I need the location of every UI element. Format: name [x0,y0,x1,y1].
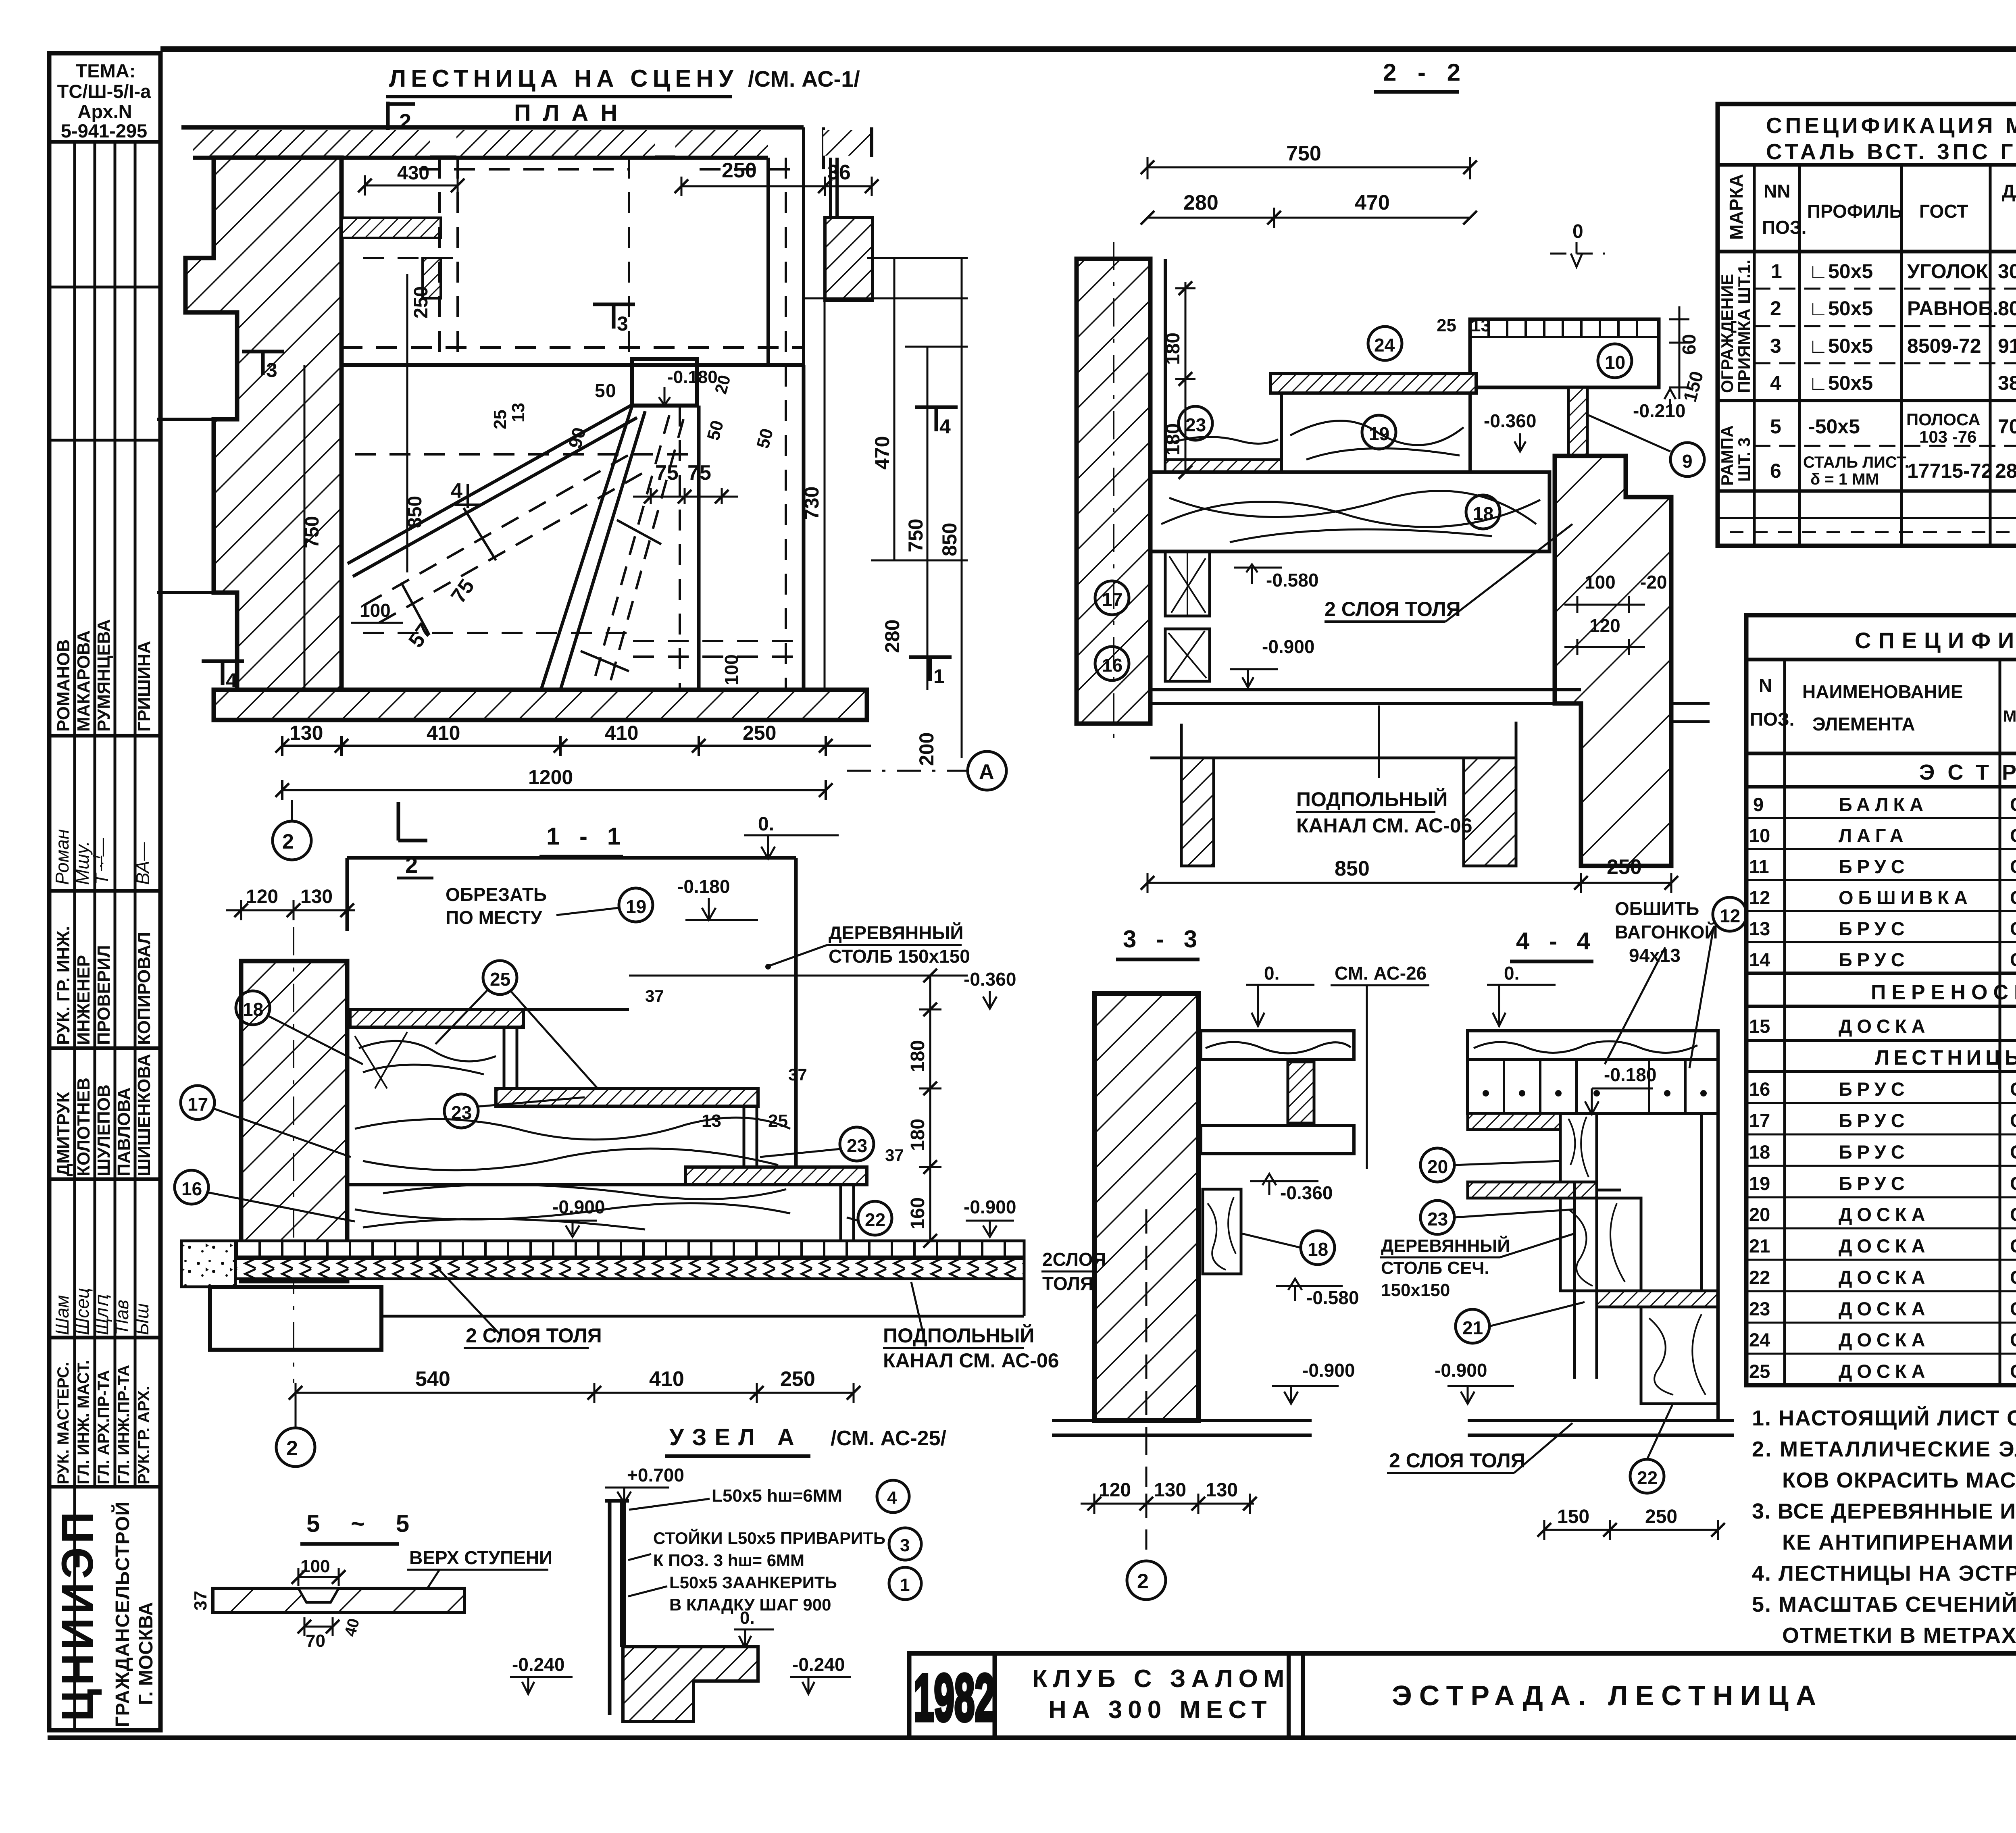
timber table column headers [1750,673,2016,744]
svg-text:ПО МЕСТУ: ПО МЕСТУ [446,907,543,928]
timber table grid [1746,615,2016,1385]
svg-text:-0.240: -0.240 [792,1654,845,1675]
svg-text:120: 120 [1589,615,1620,636]
top floor wood grain [1201,1031,1354,1059]
step hatched L-shape [623,1647,758,1721]
svg-text:5: 5 [700,461,711,485]
svg-text:РУК. МАСТЕРС.: РУК. МАСТЕРС. [54,1362,72,1484]
svg-text:7: 7 [687,461,699,485]
svg-text:МАРКА: МАРКА [1726,174,1747,240]
svg-text:2: 2 [1137,1570,1149,1593]
svg-text:4: 4 [887,1488,897,1508]
circle 18 [1301,1231,1335,1265]
svg-text:21: 21 [1462,1317,1483,1338]
svg-text:100: 100 [300,1556,330,1576]
svg-text:180: 180 [1162,423,1184,456]
circle 23 mid [444,1094,478,1128]
dashed room outline verticals [342,158,804,690]
svg-text:18: 18 [1308,1239,1328,1260]
svg-text:3. ВСЕ ДЕРЕВЯННЫЕ ИЗДЕЛИЯ П: 3. ВСЕ ДЕРЕВЯННЫЕ ИЗДЕЛИЯ ПОДВЕРГНУТЬ ГЛ… [1752,1499,2016,1523]
svg-text:180: 180 [907,1119,929,1151]
svg-text:13: 13 [508,403,528,422]
svg-text:ПРИЯМКА ШТ.1.: ПРИЯМКА ШТ.1. [1735,260,1754,393]
svg-text:410: 410 [605,722,638,744]
landing edge line [342,363,804,367]
names group2 [54,1054,154,1176]
svg-text:-0.360: -0.360 [1484,410,1536,431]
vertical plank band with nails [1468,1059,1718,1113]
svg-text:ДЛИНА: ДЛИНА [2002,181,2016,202]
svg-text:3: 3 [266,359,277,381]
svg-text:25: 25 [490,410,510,429]
svg-text:N: N [1759,675,1772,696]
landing box [632,359,697,406]
svg-text:2 СЛОЯ ТОЛЯ: 2 СЛОЯ ТОЛЯ [1389,1449,1525,1472]
block 19 wood [1281,393,1470,472]
svg-text:103 -76: 103 -76 [1919,427,1976,446]
svg-text:КОВ ОКРАСИТЬ МАСЛЯНОЙ КРАСКО: КОВ ОКРАСИТЬ МАСЛЯНОЙ КРАСКОЙ СЕРОГО ЦВЕ… [1782,1468,2016,1492]
svg-text:-0.240: -0.240 [512,1654,564,1675]
svg-text:250: 250 [743,722,776,744]
svg-text:ДЕРЕВЯННЫЙ: ДЕРЕВЯННЫЙ [829,922,964,943]
bottom tread [1597,1291,1718,1307]
svg-text:3: 3 [900,1535,910,1555]
metal table column headers [1726,171,2016,250]
svg-text:ШУЛЕПОВ: ШУЛЕПОВ [94,1084,114,1176]
circle 23 [1179,406,1212,440]
left dashed axis through wall [1113,242,1114,742]
svg-text:ПРОВЕРИЛ: ПРОВЕРИЛ [94,945,114,1045]
svg-text:ДМИТРУК: ДМИТРУК [54,1092,73,1176]
svg-text:1. НАСТОЯЩИЙ ЛИСТ СМОТРЕТЬ: 1. НАСТОЯЩИЙ ЛИСТ СМОТРЕТЬ СОВМЕСТНО С А… [1752,1406,2016,1430]
bottom floor lines [1052,1421,1312,1435]
svg-text:0.: 0. [740,1608,755,1628]
svg-text:ТЕМА:: ТЕМА: [76,60,136,81]
svg-text:-0.900: -0.900 [1262,636,1314,657]
svg-text:ТОЛЯ: ТОЛЯ [1042,1273,1093,1294]
left hatched wall [241,961,347,1281]
left lower hatched pier [1181,758,1214,866]
svg-text:160: 160 [907,1197,929,1230]
svg-text:9: 9 [1682,451,1693,472]
ledge hatch notch on wall [342,218,441,238]
svg-text:180: 180 [1162,333,1184,365]
blocks 17 16 left [1165,551,1210,616]
svg-text:23: 23 [1185,414,1206,435]
svg-text:94x13: 94x13 [1629,945,1681,966]
axis circle A right [968,751,1006,790]
top floor wood grain strip [1468,1031,1718,1059]
svg-text:4: 4 [451,479,462,503]
bottom dimension row ticks [282,736,871,800]
svg-text:20: 20 [1427,1156,1448,1177]
svg-text:ЛЕСТНИЦЫ НА ЭСТРАДУ ШТ. 2: ЛЕСТНИЦЫ НА ЭСТРАДУ ШТ. 2 [1875,1046,2016,1069]
svg-text:L50x5 hш=6ММ: L50x5 hш=6ММ [712,1486,842,1506]
timber table data rows [1749,794,2016,1382]
svg-text:Арх.N: Арх.N [77,101,132,122]
brick floor strip [181,1241,1024,1257]
svg-text:250: 250 [780,1367,815,1391]
svg-text:250: 250 [1607,855,1642,879]
svg-text:410: 410 [649,1367,684,1391]
svg-text:УЗЕЛ А: УЗЕЛ А [669,1424,802,1450]
svg-text:КАНАЛ СМ. АС-06: КАНАЛ СМ. АС-06 [883,1349,1059,1372]
svg-text:-0.900: -0.900 [1302,1360,1355,1381]
joist hatched [1288,1062,1314,1123]
svg-text:ШИШЕНКОВА: ШИШЕНКОВА [134,1054,154,1176]
svg-text:0.: 0. [1264,963,1279,984]
svg-text:ТС/Ш-5/I-а: ТС/Ш-5/I-а [57,81,151,102]
svg-text:750: 750 [1286,142,1321,165]
svg-text:130: 130 [1154,1479,1186,1501]
svg-text:19: 19 [626,896,646,917]
dimension tick marks [234,160,1725,1633]
svg-text:2: 2 [405,852,418,878]
riser board under tread1 [504,1027,517,1088]
svg-text:13: 13 [1471,316,1491,335]
roles group [54,926,154,1045]
svg-text:0.: 0. [758,814,774,835]
svg-text:Шсец: Шсец [72,1288,93,1335]
stair structure: top landing board [1468,1113,1560,1130]
svg-text:-0.180: -0.180 [1604,1064,1656,1085]
svg-text:СПЕЦИФИКАЦИЯ МЕТАЛЛА НА ЛИСТ А: СПЕЦИФИКАЦИЯ МЕТАЛЛА НА ЛИСТ АС-25 [1766,113,2016,138]
svg-text:1200: 1200 [528,766,573,789]
svg-text:120: 120 [246,886,278,907]
bottom wood block [1641,1307,1718,1404]
svg-text:25: 25 [490,969,510,990]
svg-text:СПЕЦИФИКАЦИЯ: СПЕЦИФИКАЦИЯ [1855,628,2016,653]
svg-text:КОПИРОВАЛ: КОПИРОВАЛ [134,932,154,1045]
bottom dims 540 410 250 [296,1383,854,1403]
svg-text:19: 19 [1369,423,1389,444]
dims 120 130 above wall [226,900,355,920]
svg-text:/СМ. АС-1/: /СМ. АС-1/ [748,66,860,92]
svg-text:ПАВЛОВА: ПАВЛОВА [114,1087,134,1176]
svg-text:ДЕРЕВЯННЫЙ: ДЕРЕВЯННЫЙ [1381,1235,1510,1256]
title block grid [909,1653,2016,1738]
svg-text:/СМ. АС-25/: /СМ. АС-25/ [831,1427,946,1450]
section mark T4 left bottom [202,661,244,685]
svg-text:ОГРАЖДЕНИЕ: ОГРАЖДЕНИЕ [1718,274,1737,393]
svg-text:ГЛ. АРХ.ПР-ТА: ГЛ. АРХ.ПР-ТА [95,1370,112,1484]
circle 22 [858,1201,892,1235]
section mark T3 center [593,304,635,329]
svg-text:75: 75 [655,461,679,485]
svg-text:250: 250 [410,286,432,318]
svg-text:250: 250 [1645,1506,1677,1527]
svg-text:4. ЛЕСТНИЦЫ НА ЭСТРАДУ У О: 4. ЛЕСТНИЦЫ НА ЭСТРАДУ У ОСИ [1752,1561,2016,1585]
beam below [1201,1126,1354,1154]
svg-text:НАИМЕНОВАНИЕ: НАИМЕНОВАНИЕ [1802,681,1963,702]
svg-text:37: 37 [645,986,664,1005]
svg-text:ПЛАН: ПЛАН [514,100,629,126]
right vertical band [1702,1059,1718,1421]
bottom dims 120 130 130 [1081,1435,1254,1556]
svg-text:18: 18 [243,999,263,1020]
step tread 3 hatched [685,1167,867,1185]
svg-text:70: 70 [306,1631,325,1651]
svg-text:430: 430 [397,162,429,184]
svg-text:ПРОФИЛЬ: ПРОФИЛЬ [1807,201,1903,222]
svg-text:СТОЛБ 150x150: СТОЛБ 150x150 [829,946,970,967]
svg-text:РУМЯНЦЕВА: РУМЯНЦЕВА [94,619,114,732]
solid interior verticals [699,365,804,690]
svg-text:2: 2 [282,830,294,853]
svg-text:РОМАНОВ: РОМАНОВ [54,639,73,732]
svg-text:ГЛ. ИНЖ. МАСТ.: ГЛ. ИНЖ. МАСТ. [75,1360,92,1484]
svg-text:150: 150 [1557,1506,1589,1527]
institute name [53,1502,157,1727]
dim 100 top [298,1568,339,1586]
dashed stringers [365,415,683,687]
svg-text:-20: -20 [1640,572,1667,593]
metal table row group labels [1718,260,1754,486]
center post verticals [1574,1182,1597,1379]
svg-text:470: 470 [871,436,893,470]
right hatched mass [1555,456,1671,866]
svg-text:5: 5 [595,380,605,401]
dim 750 top [1148,157,1470,228]
svg-text:3 - 3: 3 - 3 [1123,926,1204,953]
top right wall hatch block [823,130,872,156]
metal specification table [1718,104,2016,546]
circle 21 [1456,1309,1489,1343]
svg-text:4: 4 [226,669,237,692]
floor double line [1150,690,1581,703]
svg-text:470: 470 [1355,191,1390,214]
svg-text:5-941-295: 5-941-295 [61,120,147,141]
svg-text:-0.210: -0.210 [1633,400,1685,421]
svg-text:130: 130 [289,722,323,744]
svg-text:0.: 0. [1504,963,1519,984]
wall inner face line [1164,259,1167,472]
svg-text:РУК.ГР. АРХ.: РУК.ГР. АРХ. [135,1386,153,1484]
svg-text:4 - 4: 4 - 4 [1516,928,1597,955]
svg-text:-0.580: -0.580 [1266,570,1318,591]
svg-text:МАТЕРИАЛ: МАТЕРИАЛ [2003,707,2016,725]
left wall hatched [1077,259,1150,724]
top wall of plan [181,127,804,158]
metal table title [1766,113,2016,164]
svg-text:А: А [979,760,994,784]
lower wood block with grain [1560,1198,1641,1291]
svg-text:Роман: Роман [52,829,73,885]
small board left of 19 [1165,460,1281,472]
svg-text:ВА—: ВА— [132,842,153,885]
svg-text:-0.180: -0.180 [677,876,730,897]
svg-text:МАКАРОВА: МАКАРОВА [74,630,94,732]
top outline box [347,858,796,1185]
svg-text:СТАЛЬ ВСТ. 3ПС ГОСТ 380-71: СТАЛЬ ВСТ. 3ПС ГОСТ 380-71 [1766,139,2016,164]
left wall pier of plan (hatched) [185,158,342,690]
platform plank top strip [1470,319,1659,337]
bottom title block [909,1653,2016,1780]
left wall outer notch lines [157,258,237,593]
svg-text:СТОЛБ СЕЧ.: СТОЛБ СЕЧ. [1381,1258,1489,1278]
svg-text:ОБРЕЗАТЬ: ОБРЕЗАТЬ [446,884,547,905]
axis circle 2 [1127,1561,1166,1600]
circle 18 left [236,991,270,1025]
svg-text:25: 25 [768,1111,788,1131]
svg-text:850: 850 [1335,857,1370,880]
notes [1752,1406,2016,1648]
svg-text:ПОДПОЛЬНЫЙ: ПОДПОЛЬНЫЙ [1296,788,1447,811]
svg-text:КОЛОТНЕВ: КОЛОТНЕВ [74,1078,94,1176]
right dimension stack 37/180/37/180/37/160 [629,976,968,1241]
svg-text:150x150: 150x150 [1381,1280,1450,1300]
small hatch notch 2 [423,258,441,298]
top wall hatch segment 1 [193,130,430,156]
rotated names group1 [54,619,154,732]
svg-text:ЭСТРАДА: ЭСТРАДА [1919,760,2016,784]
axis circle 2 bottom [276,1428,315,1467]
svg-text:ЭЛЕМЕНТА: ЭЛЕМЕНТА [1812,714,1915,734]
title block texts [1032,1663,2016,1730]
middle tread [1468,1182,1597,1198]
svg-text:КЕ АНТИПИРЕНАМИ И АНТИСЕПТИ: КЕ АНТИПИРЕНАМИ И АНТИСЕПТИКАМИ. [1782,1530,2016,1554]
svg-text:2 СЛОЯ ТОЛЯ: 2 СЛОЯ ТОЛЯ [1325,598,1461,620]
angle bar vertical (L50x5) [605,1501,629,1715]
svg-text:NN: NN [1764,181,1790,202]
svg-text:-0.580: -0.580 [1306,1287,1359,1308]
bottom floor lines [1468,1421,1734,1435]
svg-text:РУК. ГР. ИНЖ.: РУК. ГР. ИНЖ. [54,926,73,1045]
bottom dims 150 250 [1544,1520,1718,1540]
left dim line vertical [304,274,407,690]
svg-text:Мшу.: Мшу. [72,841,93,885]
level 0 mark right [1550,242,1605,267]
circle 10 [1598,344,1632,378]
svg-text:ШТ. 3: ШТ. 3 [1735,437,1754,482]
svg-text:Щлԥ: Щлԥ [91,1294,112,1335]
svg-text:12: 12 [1720,905,1740,926]
svg-text:23: 23 [847,1135,867,1156]
metal table data rows [1770,260,2016,488]
parquet chevron strip [214,1259,1024,1279]
svg-text:37: 37 [885,1146,904,1165]
svg-text:100: 100 [360,600,391,621]
svg-text:-0.900: -0.900 [552,1196,605,1217]
svg-text:0: 0 [606,380,616,401]
svg-text:2. МЕТАЛЛИЧЕСКИЕ ЭЛЕМЕНТЫ ОГ: 2. МЕТАЛЛИЧЕСКИЕ ЭЛЕМЕНТЫ ОГРАЖДЕНИЯ ПРИ… [1752,1437,2016,1461]
svg-text:К ПОЗ. 3 hш= 6ММ: К ПОЗ. 3 hш= 6ММ [653,1551,804,1570]
svg-text:ПОЗ.: ПОЗ. [1750,709,1794,730]
svg-text:Тퟁ—: Тퟁ— [91,838,112,885]
top wall hatch segment 2 [456,130,655,156]
section mark 2 bottom [398,802,427,841]
step nosing cross dashes [401,508,661,671]
step tread 1 hatched [350,1009,523,1027]
svg-text:100: 100 [1585,572,1616,593]
svg-text:120: 120 [1099,1479,1131,1501]
circle 23 [1420,1201,1454,1234]
circle 25 with leaders [483,961,517,995]
svg-text:ГРАЖДАНСЕЛЬСТРОЙ: ГРАЖДАНСЕЛЬСТРОЙ [111,1502,133,1727]
svg-text:ЭСТРАДА. ЛЕСТНИЦА: ЭСТРАДА. ЛЕСТНИЦА [1392,1680,1823,1711]
svg-text:ГРИШИНА: ГРИШИНА [134,641,154,732]
svg-text:5. МАСШТАБ СЕЧЕНИЙ 1:10, РАЗ: 5. МАСШТАБ СЕЧЕНИЙ 1:10, РАЗМЕРЫ В МИЛЛИ… [1752,1592,2016,1617]
svg-text:280: 280 [881,620,904,653]
svg-text:250: 250 [722,159,757,182]
svg-text:L50x5 ЗААНКЕРИТЬ: L50x5 ЗААНКЕРИТЬ [669,1573,837,1592]
svg-text:200: 200 [915,732,938,766]
lower wood grain [355,1203,790,1219]
svg-text:17: 17 [1102,589,1123,610]
svg-text:ПОЗ.: ПОЗ. [1762,217,1806,238]
svg-text:РАМПА: РАМПА [1718,425,1737,486]
dim 70 bottom [304,1617,333,1636]
svg-text:17: 17 [187,1094,208,1115]
svg-text:Ыш: Ыш [131,1303,152,1335]
board with sparse hatch [213,1588,464,1612]
signatures group2 [52,1288,152,1335]
title underline [386,95,732,98]
big hatched wall [1094,993,1198,1421]
metal table grid [1718,104,2016,546]
svg-text:100: 100 [721,654,742,685]
stair stringer upper pair [348,405,637,576]
bottom wall strip [214,690,867,720]
svg-text:37: 37 [788,1065,807,1084]
roles group2 [54,1360,153,1484]
svg-text:СТОЙКИ L50x5 ПРИВАРИТЬ: СТОЙКИ L50x5 ПРИВАРИТЬ [653,1528,885,1548]
section mark T1 right bottom [909,657,952,681]
svg-text:-0.360: -0.360 [1280,1182,1333,1203]
svg-text:ГЛ. ИНЖ.ПР-ТА: ГЛ. ИНЖ.ПР-ТА [115,1365,133,1484]
circles 17 16 left [181,1086,215,1119]
circle 23 right [840,1127,874,1161]
svg-text:16: 16 [1102,655,1123,676]
beam 18 wood big [1150,472,1549,551]
section mark T4 right [915,407,958,431]
svg-text:ВАГОНКОЙ: ВАГОНКОЙ [1615,922,1718,943]
svg-text:1 - 1: 1 - 1 [546,823,627,850]
bottom dims 850 250 [1148,873,1671,893]
svg-text:24: 24 [1374,335,1395,356]
svg-text:-0.900: -0.900 [964,1196,1016,1217]
svg-text:КАНАЛ СМ. АС-06: КАНАЛ СМ. АС-06 [1296,814,1472,837]
top wall hatch segment 3 [675,130,768,156]
svg-text:ПОЛОСА: ПОЛОСА [1906,410,1981,429]
svg-text:22: 22 [1637,1467,1658,1488]
left stamp sidebar [49,53,160,1730]
svg-text:180: 180 [907,1040,929,1072]
tread 24 [1270,374,1476,393]
svg-text:1: 1 [933,665,945,688]
svg-text:2: 2 [286,1437,298,1460]
svg-text:730: 730 [800,487,823,520]
section mark T3 left [242,352,284,375]
svg-text:540: 540 [415,1367,450,1391]
svg-text:ИНЖЕНЕР: ИНЖЕНЕР [74,955,94,1045]
svg-text:22: 22 [865,1209,885,1230]
svg-text:13: 13 [702,1111,721,1131]
svg-text:Г. МОСКВА: Г. МОСКВА [135,1602,157,1705]
underfloor channel structure [1150,703,1710,866]
big footing outline [210,1287,381,1350]
svg-text:0: 0 [1572,221,1583,242]
svg-text:60: 60 [1679,334,1699,355]
step tread 2 hatched [496,1088,758,1106]
svg-text:ВЕРХ СТУПЕНИ: ВЕРХ СТУПЕНИ [409,1547,552,1568]
right room hatched pier [825,218,873,300]
riser lines under tread3 [841,1185,854,1241]
support post 9 hatched [1568,387,1587,458]
dims 60 150 right [1669,306,1689,399]
vertical post 20 (wood grain) [1560,1113,1597,1182]
svg-text:ГОСТ: ГОСТ [1919,201,1968,222]
